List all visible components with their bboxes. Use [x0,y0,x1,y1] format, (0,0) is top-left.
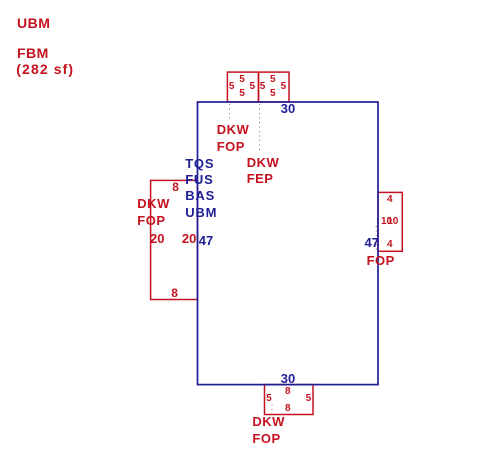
label DKW line1 (top box 2) [247,156,280,169]
label BAS [185,189,215,202]
leader from top box 1 to DKW FOP label [229,104,231,120]
dim 10 right of right box [387,217,398,227]
dim 5 top of top box 1 [239,75,245,85]
label DKW line1 (left box) [137,197,170,210]
dim 8 top of bottom box [285,387,291,397]
dim 10 left of right box [381,217,392,227]
dim 5 left of bottom box [266,394,272,404]
dim 5 bottom of top box 2 [270,89,276,99]
left porch box DKW FOP (8x20) [151,180,198,299]
dim 8 bottom of left box [171,287,178,299]
label TQS [185,157,214,170]
label DKW line1 (top box 1) [217,123,250,136]
dim 4 bottom of right box [387,240,393,250]
dim 5 left of top box 1 [229,82,235,92]
label FOP line2 (left box) [137,214,165,227]
label DKW line1 (bottom box) [252,415,285,428]
leader from bottom box to DKW FOP label [271,405,273,413]
dim 8 bottom of bottom box [285,404,291,414]
label FOP (right box) [367,254,395,267]
leader from right box to FOP label [375,226,377,253]
main building outline (30x47) [198,102,379,385]
label FOP line2 (bottom box) [252,432,280,445]
dim 20 left of left box [150,232,164,245]
dim 30 top wall [281,102,295,115]
dim 4 top of right box [387,195,393,205]
dim 5 right of top box 1 [250,82,256,92]
dim 5 left of top box 2 [260,82,266,92]
dim 5 right of bottom box [306,394,312,404]
label FBM [17,46,49,60]
label (282 sf) [16,62,74,76]
bottom box DKW FOP (8x5) [265,385,314,415]
dim 5 bottom of top box 1 [239,89,245,99]
top box 1 DKW FOP (5x5) [227,72,258,102]
dim 5 right of top box 2 [281,82,287,92]
top box 2 DKW FEP (5x5) [259,72,290,102]
dim 5 top of top box 2 [270,75,276,85]
label UBM (upper level note) [17,16,50,30]
label FEP line2 (top box 2) [247,172,274,185]
right box FOP (4x10) [378,192,402,251]
dim 47 left wall [199,234,213,247]
dim 47 right wall [365,236,379,249]
dim 30 bottom wall [281,372,295,385]
label UBM (main area) [185,206,217,219]
label FOP line2 (top box 1) [217,140,245,153]
dim 20 right of left box [182,232,196,245]
label FUS [185,173,213,186]
leader from top box 2 to DKW FEP label [259,104,261,154]
dim 8 top of left box [172,181,179,193]
